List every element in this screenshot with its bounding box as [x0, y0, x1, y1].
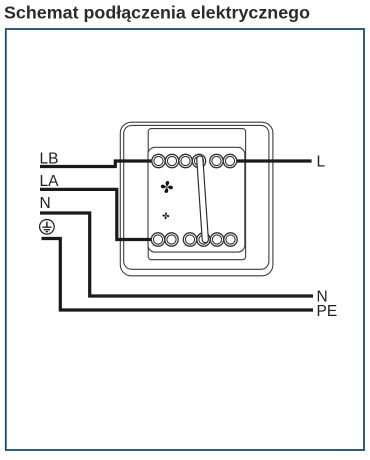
- switch body outer case: [120, 122, 273, 276]
- switch body inner case: [124, 125, 269, 269]
- jumper wire between terminals: [200, 159, 206, 240]
- terminal row bottom: [151, 233, 237, 246]
- wire PE: [42, 239, 314, 311]
- wire LA: [40, 189, 158, 239]
- svg-text:Schemat podłączenia elektryczn: Schemat podłączenia elektrycznego: [4, 2, 310, 22]
- ground symbol PE: [40, 220, 55, 235]
- terminal row top: [152, 154, 237, 167]
- svg-text:L: L: [317, 153, 326, 170]
- fan symbol small: [162, 212, 169, 219]
- fan symbol large: [161, 181, 174, 194]
- terminal block: [148, 147, 245, 252]
- wire N: [40, 213, 313, 296]
- svg-text:N: N: [40, 195, 51, 212]
- svg-text:LA: LA: [40, 173, 60, 190]
- wire LB: [40, 161, 159, 167]
- switch central plate: [148, 129, 245, 260]
- svg-text:LB: LB: [40, 150, 59, 167]
- svg-text:PE: PE: [317, 303, 338, 320]
- wire L: [230, 159, 312, 162]
